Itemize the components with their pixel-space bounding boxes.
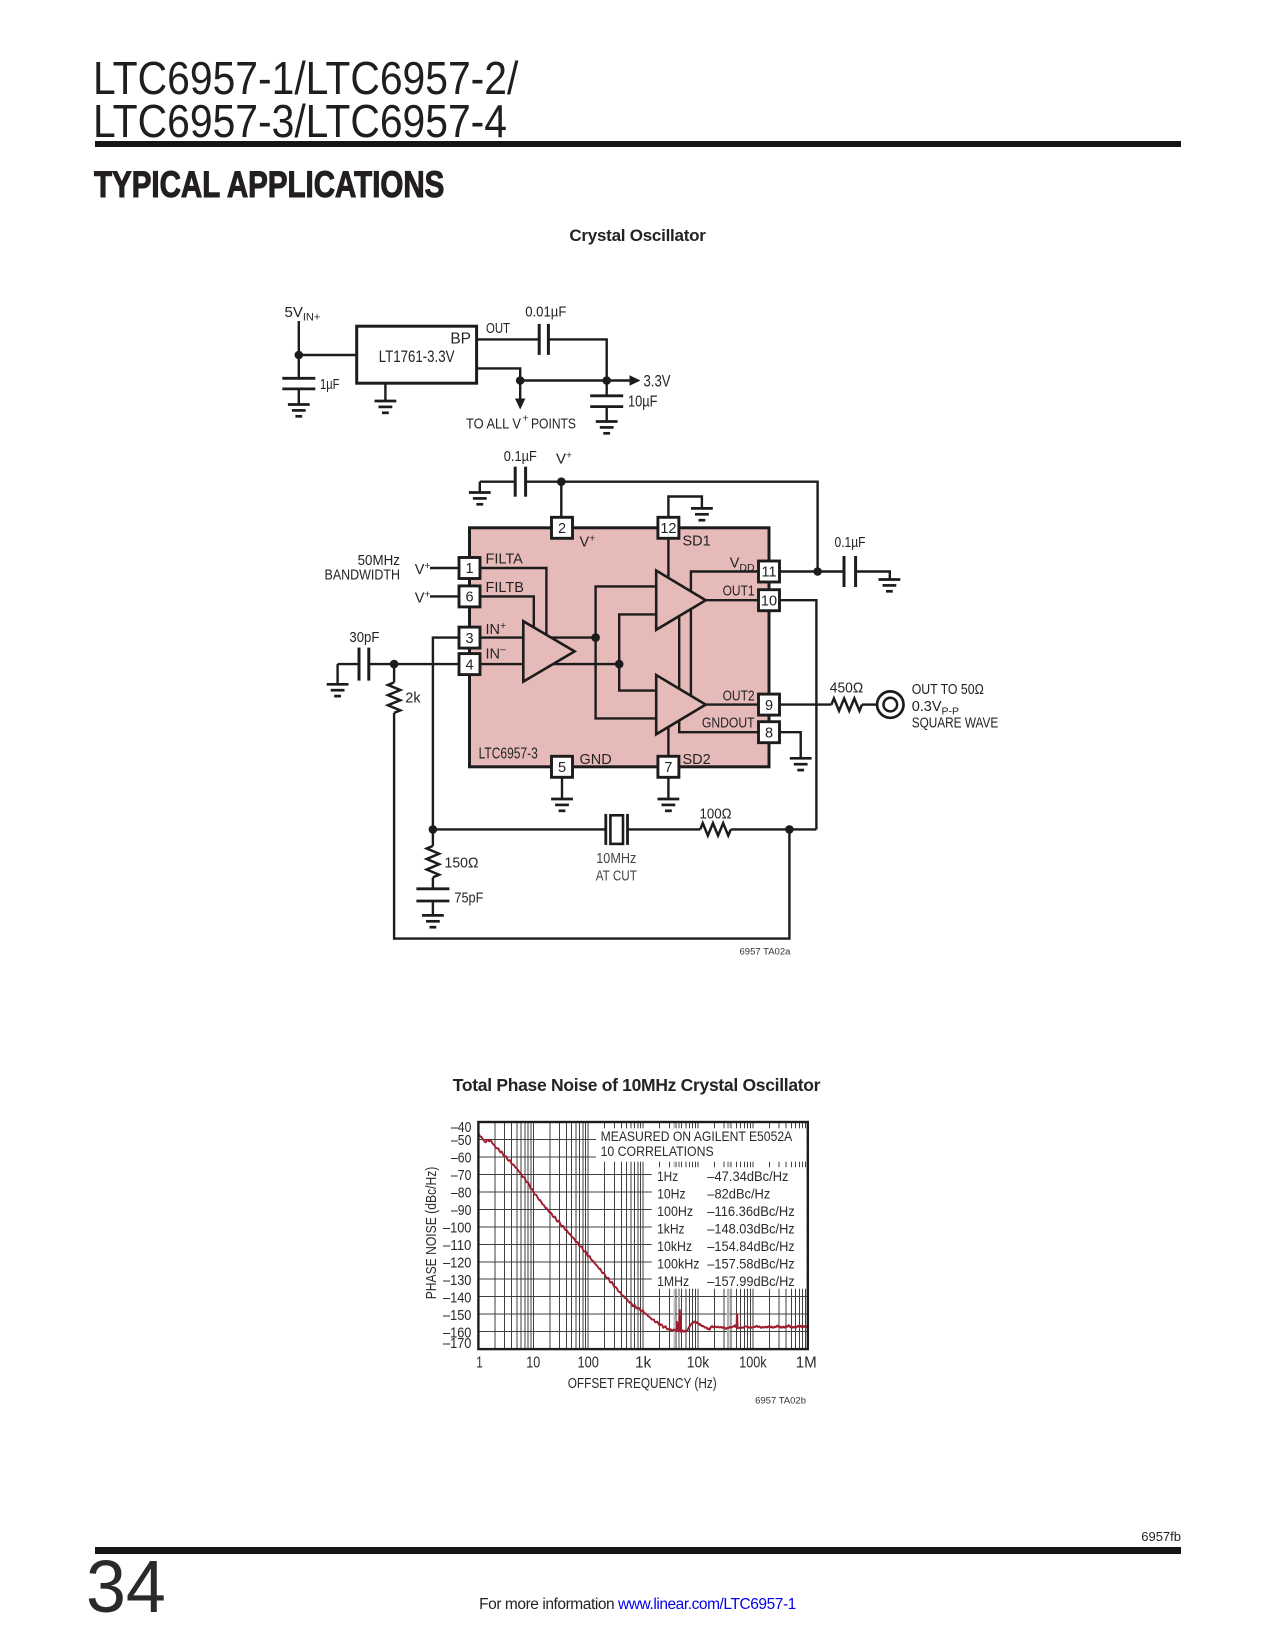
svg-text:9: 9: [765, 698, 773, 714]
ground left of C6: [327, 684, 349, 696]
pin 1 FILTA: [459, 558, 480, 579]
wire pin 7 to ground: [667, 777, 669, 798]
svg-text:V+: V+: [415, 560, 431, 578]
wire R2 to connector: [862, 703, 877, 705]
svg-text:OUT: OUT: [486, 320, 510, 337]
pin 6 FILTB: [459, 586, 480, 607]
svg-text:LTC6957-3: LTC6957-3: [479, 746, 538, 763]
pin 4 IN-: [459, 654, 480, 675]
regulator U1 LT1761-3.3V: [357, 326, 477, 383]
wire 3.3V node to C3: [606, 381, 608, 396]
wire to OUT1 vertical: [789, 828, 816, 830]
svg-text:–60: –60: [451, 1151, 471, 1167]
svg-text:0.01µF: 0.01µF: [525, 304, 566, 321]
svg-text:10µF: 10µF: [628, 394, 658, 411]
svg-text:100Hz: 100Hz: [657, 1204, 693, 1220]
svg-text:BANDWIDTH: BANDWIDTH: [325, 568, 401, 584]
wire V+ to pin 1: [430, 567, 459, 569]
chart title: [0, 1075, 1273, 1096]
svg-text:–148.03dBc/Hz: –148.03dBc/Hz: [707, 1221, 794, 1237]
wire OUT pin to V+ arrow node: [477, 368, 521, 380]
node V+ distribution junction: [516, 376, 525, 385]
svg-text:POINTS: POINTS: [531, 416, 576, 433]
svg-text:10k: 10k: [687, 1355, 710, 1372]
svg-text:GNDOUT: GNDOUT: [702, 716, 755, 732]
svg-text:10 CORRELATIONS: 10 CORRELATIONS: [601, 1144, 714, 1160]
svg-text:1Hz: 1Hz: [657, 1169, 678, 1185]
wire GNDOUT internal: [679, 617, 758, 732]
wire IN- internal: [480, 663, 619, 665]
wire pin 11 to C5: [780, 570, 844, 572]
svg-text:5: 5: [558, 760, 566, 776]
wire ground to C4: [480, 481, 514, 483]
capacitor C1 1uF input bypass: [282, 378, 315, 389]
chart border: [478, 1122, 807, 1349]
svg-text:1kHz: 1kHz: [657, 1221, 685, 1237]
wire pin 3 feedback: [433, 638, 459, 830]
svg-text:10Hz: 10Hz: [657, 1186, 686, 1202]
svg-text:TO ALL V: TO ALL V: [466, 416, 521, 433]
wire signal P to drivers: [596, 586, 657, 637]
wire VDD internal: [691, 572, 759, 698]
resistor R4 150ohm: [427, 846, 439, 878]
svg-text:1µF: 1µF: [320, 376, 340, 393]
svg-text:AT CUT: AT CUT: [596, 868, 637, 884]
svg-text:2: 2: [558, 521, 566, 537]
schematic title Crystal Oscillator: [0, 226, 1275, 246]
amplifier A3 output driver 2: [656, 675, 706, 734]
node 2k junction: [390, 660, 399, 669]
svg-text:V+: V+: [556, 450, 572, 468]
amplifier A2 output driver 1: [656, 571, 706, 630]
wire R4 from left junction: [432, 829, 434, 846]
svg-text:1: 1: [476, 1355, 483, 1372]
wire OUT1 external down: [780, 600, 817, 829]
svg-text:SQUARE WAVE: SQUARE WAVE: [912, 716, 999, 732]
capacitor C4 0.1uF V+ bypass: [515, 467, 525, 497]
node input junction: [295, 351, 304, 360]
pin 3 IN+: [459, 627, 480, 648]
wire ground stub for C4: [479, 482, 481, 492]
svg-text:SD1: SD1: [683, 534, 711, 550]
svg-text:1: 1: [465, 561, 473, 577]
legend table: [657, 1169, 795, 1290]
wire R4 to C7: [432, 877, 434, 888]
chart spur artifact lines: [674, 1122, 728, 1349]
arrow to all V+ points: [519, 381, 521, 400]
section heading TYPICAL APPLICATIONS: [94, 163, 444, 206]
wire C7 to ground: [432, 902, 434, 915]
wire signal N to drivers: [619, 614, 656, 664]
svg-text:30pF: 30pF: [349, 630, 379, 646]
svg-text:–170: –170: [443, 1336, 471, 1352]
wire SD1 pin 12 to ground: [668, 497, 702, 518]
svg-text:–116.36dBc/Hz: –116.36dBc/Hz: [707, 1204, 794, 1220]
svg-text:1MHz: 1MHz: [657, 1274, 689, 1290]
wire BP pin to C2: [477, 338, 539, 340]
wire input to regulator: [298, 354, 357, 356]
ground below pin 5: [551, 799, 573, 811]
pin 8 GNDOUT: [759, 722, 780, 743]
svg-text:–140: –140: [443, 1290, 471, 1306]
phase noise curve: [478, 1134, 807, 1333]
wire FILTB internal: [480, 596, 534, 632]
svg-text:3: 3: [465, 631, 473, 647]
node V+ top junction: [557, 477, 566, 486]
svg-text:75pF: 75pF: [454, 891, 483, 907]
svg-text:–82dBc/Hz: –82dBc/Hz: [707, 1186, 770, 1202]
wire crystal to R3: [629, 828, 701, 830]
wire junction to R1: [393, 664, 395, 682]
capacitor C2 0.01uF bypass: [539, 324, 548, 355]
wire IN+ internal: [480, 636, 596, 638]
wire SD2 internal stub: [667, 724, 669, 757]
svg-text:100: 100: [578, 1355, 599, 1372]
svg-text:100kHz: 100kHz: [657, 1256, 699, 1272]
svg-text:100Ω: 100Ω: [700, 807, 732, 823]
pin 9 OUT2: [759, 694, 780, 715]
svg-text:6957 TA02b: 6957 TA02b: [755, 1396, 806, 1407]
svg-text:10: 10: [526, 1355, 540, 1372]
svg-text:MEASURED ON AGILENT E5052A: MEASURED ON AGILENT E5052A: [601, 1129, 793, 1145]
resistor R3 100ohm: [700, 823, 731, 835]
wire OUT2 internal: [706, 703, 759, 705]
pin 11 VDD: [759, 561, 780, 582]
ground left of C4: [469, 493, 491, 505]
wire C4 to V+ junction: [527, 481, 562, 483]
svg-text:4: 4: [465, 657, 473, 673]
svg-text:7: 7: [664, 760, 672, 776]
document title LTC6957: [93, 57, 518, 145]
svg-text:–130: –130: [443, 1273, 471, 1289]
capacitor C7 75pF: [416, 889, 449, 901]
chart grid: [478, 1122, 807, 1349]
resistor R1 2k: [388, 682, 400, 713]
capacitor C3 10uF output: [590, 396, 623, 407]
wire pin 5 to ground: [561, 777, 563, 798]
wire regulator GND pin: [384, 383, 386, 400]
svg-text:10MHz: 10MHz: [596, 851, 636, 867]
wire C1 to ground: [298, 390, 300, 404]
svg-text:–80: –80: [451, 1186, 471, 1202]
page number 34: [86, 1544, 166, 1629]
legend background: [596, 1128, 807, 1161]
amplifier A1 input buffer: [523, 621, 574, 681]
ground for SD1: [691, 508, 713, 520]
ground below U1: [375, 401, 397, 413]
ground below C7: [422, 915, 444, 927]
header rule: [95, 141, 1181, 148]
svg-text:5VIN+: 5VIN+: [285, 304, 321, 324]
svg-text:8: 8: [765, 725, 773, 741]
wire C3 to ground: [606, 408, 608, 421]
wire V+ junction down to pin 2: [560, 482, 562, 517]
IC U2 LTC6957-3 body: [470, 528, 770, 767]
svg-text:GND: GND: [580, 752, 612, 768]
svg-text:–90: –90: [451, 1203, 471, 1219]
svg-text:–150: –150: [443, 1308, 471, 1324]
wire V+ node to 3.3V node: [520, 379, 607, 381]
svg-text:–110: –110: [443, 1238, 471, 1254]
connector J1 output jack: [877, 691, 903, 717]
svg-text:–100: –100: [443, 1221, 471, 1237]
node 3.3V output junction: [602, 376, 611, 385]
wire R3 to right junction: [731, 828, 790, 830]
svg-text:OFFSET FREQUENCY (Hz): OFFSET FREQUENCY (Hz): [568, 1376, 717, 1392]
svg-text:+: +: [523, 413, 529, 425]
svg-text:V+: V+: [415, 589, 431, 607]
crystal X1 10MHz AT cut: [606, 814, 628, 845]
svg-text:0.1µF: 0.1µF: [504, 448, 537, 465]
wire FILTA internal: [480, 568, 546, 640]
node internal P: [591, 633, 600, 642]
svg-text:1M: 1M: [796, 1355, 817, 1372]
wire junction to C1: [298, 355, 300, 378]
svg-text:–120: –120: [443, 1255, 471, 1271]
svg-text:1k: 1k: [635, 1355, 652, 1372]
svg-text:FILTB: FILTB: [486, 580, 524, 596]
svg-text:PHASE NOISE (dBc/Hz): PHASE NOISE (dBc/Hz): [423, 1167, 440, 1300]
pin 2 V+: [552, 517, 573, 538]
wire ground to C6: [338, 663, 358, 665]
svg-text:150Ω: 150Ω: [445, 856, 479, 872]
wire R1 down to feedback loop: [393, 713, 395, 940]
svg-text:10kHz: 10kHz: [657, 1239, 692, 1255]
wire ground stub for C6: [336, 664, 338, 684]
resistor R2 450ohm: [831, 698, 862, 710]
svg-text:FILTA: FILTA: [486, 552, 524, 568]
wire pin 8 to ground: [780, 732, 801, 758]
svg-text:6957 TA02a: 6957 TA02a: [740, 947, 792, 958]
ground right of C5: [879, 580, 901, 592]
svg-text:OUT1: OUT1: [723, 584, 755, 600]
footer info line: [0, 1596, 1275, 1614]
pin 10 OUT1: [759, 590, 780, 611]
wire V+ rail to right side: [561, 482, 817, 572]
svg-text:–50: –50: [451, 1133, 471, 1149]
svg-text:–70: –70: [451, 1168, 471, 1184]
ground below C3: [596, 422, 618, 434]
svg-text:2k: 2k: [405, 691, 421, 707]
svg-text:100k: 100k: [739, 1355, 767, 1372]
svg-text:–157.58dBc/Hz: –157.58dBc/Hz: [707, 1256, 794, 1272]
ground below pin 7: [658, 799, 680, 811]
svg-text:450Ω: 450Ω: [830, 681, 864, 697]
wire 5V input vertical: [298, 321, 300, 355]
wire C6 to pin 4: [370, 663, 459, 665]
svg-text:SD2: SD2: [683, 752, 711, 768]
pin 12 SD1: [658, 517, 679, 538]
svg-text:10: 10: [761, 593, 777, 609]
footer code 6957fb: [0, 1529, 1181, 1544]
wire OUT1 internal: [706, 599, 759, 601]
wire junction to crystal: [433, 828, 605, 830]
pin 7 SD2: [658, 756, 679, 777]
node crystal left junction: [429, 825, 438, 834]
svg-text:–157.99dBc/Hz: –157.99dBc/Hz: [707, 1274, 794, 1290]
svg-text:6: 6: [465, 590, 473, 606]
wire V+ to pin 6: [430, 595, 459, 597]
svg-text:–47.34dBc/Hz: –47.34dBc/Hz: [707, 1169, 788, 1185]
wire feedback loop bottom: [394, 829, 789, 938]
wire C2 to 3.3V rail corner: [549, 339, 606, 380]
node crystal right junction: [785, 825, 794, 834]
wire C5 to ground: [857, 572, 890, 580]
footer rule: [95, 1547, 1181, 1554]
node VDD V+ junction: [813, 567, 822, 576]
svg-text:11: 11: [761, 565, 776, 581]
arrow 3.3V output: [607, 379, 630, 381]
ground below C1: [288, 405, 310, 417]
svg-text:–154.84dBc/Hz: –154.84dBc/Hz: [707, 1239, 794, 1255]
svg-text:OUT TO 50Ω: OUT TO 50Ω: [912, 682, 984, 698]
capacitor C6 30pF: [359, 648, 369, 681]
capacitor C5 0.1uF VDD bypass: [844, 556, 856, 587]
svg-text:12: 12: [660, 521, 676, 537]
svg-text:0.1µF: 0.1µF: [835, 535, 866, 551]
svg-text:3.3V: 3.3V: [644, 373, 671, 391]
pin 5 GND: [552, 756, 573, 777]
ground for GNDOUT: [790, 758, 812, 770]
svg-text:OUT2: OUT2: [723, 689, 755, 705]
wire pin 9 to R2: [780, 703, 832, 705]
node internal N: [615, 660, 624, 669]
svg-text:BP: BP: [450, 331, 471, 348]
svg-text:LT1761-3.3V: LT1761-3.3V: [379, 348, 455, 366]
wire SD1 internal stub: [667, 539, 669, 583]
